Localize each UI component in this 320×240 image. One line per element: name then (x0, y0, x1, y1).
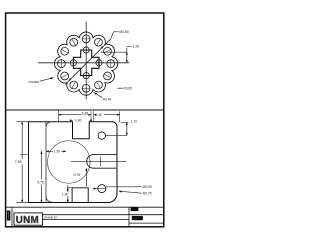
pin hole P4 (S) (82, 84, 90, 92)
horizontal centerline (38, 62, 129, 64)
svg-text:0.75: 0.75 (74, 173, 81, 177)
leader R0.75 (119, 191, 142, 193)
svg-text:7.50: 7.50 (15, 160, 22, 164)
slot bottom edge (94, 167, 118, 169)
cell divider right (128, 207, 130, 227)
rev tab black (7, 211, 10, 221)
pin hole P12 (104, 47, 112, 55)
bottom tab (72, 188, 88, 203)
arrowhead NE (101, 46, 104, 49)
svg-text:2.40: 2.40 (96, 113, 103, 117)
svg-text:DRAWN BY: DRAWN BY (44, 215, 58, 219)
pin hole P7 (W) (58, 60, 66, 68)
slot left round end (87, 155, 94, 169)
dim 2.40 (93, 111, 95, 121)
ext line x119.7 (119, 112, 121, 123)
pin slot tick marks (61, 39, 111, 89)
svg-text:1.10: 1.10 (131, 120, 138, 124)
svg-text:1.20: 1.20 (132, 45, 139, 49)
label R0.85 (118, 87, 123, 89)
flange scalloped outline (54, 32, 117, 95)
C2 tick (93, 188, 107, 190)
svg-text:R0.85: R0.85 (123, 87, 132, 91)
pin hole P3 (95, 81, 103, 89)
arrowhead SW (69, 78, 72, 81)
pin hole P1 (E) (58, 35, 115, 92)
pin hole P11 (95, 38, 103, 46)
svg-text:Ø4.80: Ø4.80 (119, 30, 129, 34)
slot-top extension left (20, 154, 29, 156)
keyway extension line (101, 51, 127, 53)
svg-text:801: 801 (131, 207, 136, 211)
body outline (29, 122, 118, 203)
slot center tick (100, 157, 102, 167)
slot centerline (71, 160, 127, 162)
inner hole E (96, 60, 102, 66)
dim 1.90 notch (75, 118, 85, 121)
pin hole P5 (70, 81, 78, 89)
hole C2 (98, 185, 106, 193)
mid row line (43, 219, 130, 221)
pin hole P8 (61, 47, 69, 55)
part no blob 1 (131, 207, 139, 211)
dim 0.75 line (86, 168, 88, 186)
hole C1 (98, 132, 105, 139)
svg-text:1.90: 1.90 (62, 193, 69, 197)
pin hole P10 (N) (82, 35, 90, 43)
dim 1.20 arrows (126, 52, 128, 55)
left extension top (17, 121, 29, 123)
svg-text:1.90: 1.90 (75, 118, 82, 122)
pin hole P9 (70, 38, 78, 46)
cell divider left (11, 207, 13, 227)
pin hole P6 (61, 72, 69, 80)
C1 centerline extension (105, 134, 127, 136)
extension line x46 (45, 122, 47, 202)
dim 7.50 line (21, 122, 23, 159)
inner hole W (70, 60, 76, 66)
pin hole P2 (104, 72, 112, 80)
svg-text:5.75: 5.75 (37, 181, 44, 185)
main circle (48, 141, 91, 184)
part no blob 2 (132, 216, 143, 220)
svg-text:8011: 8011 (132, 216, 139, 220)
right row line (129, 222, 164, 224)
dim 1.10 elbow (126, 122, 128, 135)
section divider line (6, 109, 164, 111)
title row line (43, 214, 164, 216)
dim 1.30 (46, 150, 66, 152)
vertical centerline (85, 22, 87, 100)
diagonal diameter dimension line (65, 39, 110, 84)
svg-text:Ø0.90: Ø0.90 (143, 185, 152, 189)
svg-text:1.30: 1.30 (53, 149, 60, 153)
leader dia 0.90 (106, 186, 142, 188)
dim 1.90 tab (67, 187, 72, 189)
logo box (14, 213, 43, 225)
svg-text:R0.40: R0.40 (103, 97, 112, 101)
label 1.20 (127, 46, 132, 48)
dim 6.35 row: ext lines (58, 110, 60, 122)
slot top edge (94, 154, 118, 156)
title block top line (6, 206, 164, 208)
bottom-left fillet arc (46, 197, 52, 203)
border frame (6, 13, 164, 227)
dim 6.35 line (59, 114, 92, 116)
dim 5.75 line (41, 151, 43, 179)
leader to dia label (111, 32, 119, 39)
svg-text:UNM: UNM (16, 215, 39, 226)
svg-text:6.35: 6.35 (82, 111, 89, 115)
inner hole S (83, 73, 89, 79)
svg-text:R0.75: R0.75 (143, 192, 152, 196)
solder leader (40, 78, 54, 82)
center cross keyway (73, 50, 99, 76)
svg-text:SOLDER: SOLDER (28, 80, 39, 84)
top-left fillet arc (46, 122, 52, 127)
bottom edge extension left (17, 202, 29, 204)
label R0.40 (94, 93, 102, 98)
dim 1.20 vertical line (126, 48, 128, 63)
inner hole N (70, 47, 102, 79)
